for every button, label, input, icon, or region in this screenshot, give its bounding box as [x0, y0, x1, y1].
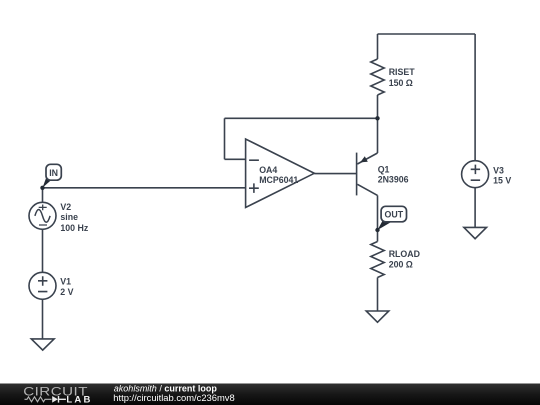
wire top rail: [378, 33, 476, 35]
svg-text:RLOAD: RLOAD: [389, 249, 420, 259]
svg-text:V2: V2: [60, 202, 71, 212]
wire RLOAD bottom lead: [377, 278, 379, 312]
svg-text:150 Ω: 150 Ω: [389, 78, 413, 88]
op-amp OA4: [246, 139, 315, 208]
wire V3 top lead: [474, 34, 476, 161]
svg-text:200 Ω: 200 Ω: [389, 260, 413, 270]
wire RISET bottom lead: [377, 95, 379, 118]
wire feedback vertical: [224, 118, 226, 159]
voltage source V1: [29, 272, 56, 299]
wire feedback horizontal: [225, 117, 378, 119]
svg-text:RISET: RISET: [389, 67, 416, 77]
V2 polarity plus minus marks: [39, 205, 47, 226]
node OUT flag: [378, 206, 407, 230]
transistor Q1: [357, 153, 378, 196]
voltage source V2: [29, 202, 56, 229]
wire noninverting input: [43, 187, 246, 189]
ground below V3: [464, 227, 487, 238]
wire emitter vertical: [377, 118, 379, 153]
svg-text:MCP6041: MCP6041: [259, 175, 298, 185]
svg-text:http://circuitlab.com/c236mv8: http://circuitlab.com/c236mv8: [113, 392, 234, 403]
svg-text:OUT: OUT: [385, 210, 404, 220]
node IN flag: [43, 164, 62, 188]
svg-text:sine: sine: [60, 212, 78, 222]
footer logo resistor symbol: [25, 397, 52, 402]
transistor Q1 emitter arrow: [360, 156, 368, 162]
node junction at OUT: [375, 228, 379, 232]
wire V2 to V1: [42, 229, 44, 272]
svg-text:100 Hz: 100 Hz: [60, 223, 88, 233]
footer bar: [0, 384, 540, 405]
wire V1 bottom lead: [42, 299, 44, 339]
ground below V1: [31, 339, 54, 350]
wire op-amp output to base: [314, 173, 356, 175]
svg-text:LAB: LAB: [66, 394, 92, 405]
svg-text:15 V: 15 V: [493, 175, 511, 185]
svg-text:V3: V3: [493, 165, 504, 175]
footer logo diode symbol: [52, 396, 58, 403]
op-amp minus marker: [249, 159, 259, 161]
wire RISET top lead: [377, 34, 379, 59]
wire V3 bottom lead: [474, 188, 476, 228]
svg-text:Q1: Q1: [378, 164, 390, 174]
svg-text:OA4: OA4: [259, 165, 277, 175]
voltage source V3: [462, 161, 489, 188]
wire inverting input: [225, 158, 246, 160]
resistor RLOAD: [371, 242, 384, 278]
ground below RLOAD: [366, 311, 389, 322]
node junction at IN: [40, 186, 44, 190]
resistor RISET: [371, 59, 384, 95]
wire V2 top lead: [42, 188, 44, 203]
svg-text:2 V: 2 V: [60, 287, 73, 297]
node junction at RISET/feedback/emitter: [375, 116, 379, 120]
svg-text:IN: IN: [49, 168, 58, 178]
wire collector vertical: [377, 195, 379, 241]
svg-text:V1: V1: [60, 277, 71, 287]
svg-text:2N3906: 2N3906: [378, 174, 409, 184]
op-amp plus marker: [249, 183, 259, 193]
